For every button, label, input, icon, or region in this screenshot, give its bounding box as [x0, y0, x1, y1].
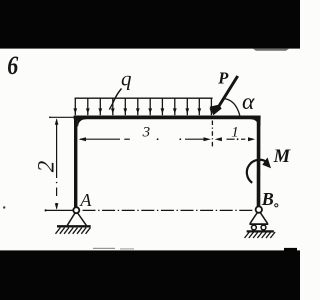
svg-text:2: 2	[33, 161, 58, 173]
svg-text:M: M	[273, 147, 291, 167]
svg-text:α: α	[242, 89, 255, 115]
svg-text:3: 3	[142, 124, 151, 140]
svg-text:1: 1	[231, 124, 239, 140]
svg-text:q: q	[121, 67, 132, 91]
svg-text:P: P	[217, 69, 229, 88]
svg-text:6: 6	[7, 51, 19, 80]
svg-text:A: A	[79, 190, 92, 210]
svg-text:B: B	[261, 189, 274, 209]
